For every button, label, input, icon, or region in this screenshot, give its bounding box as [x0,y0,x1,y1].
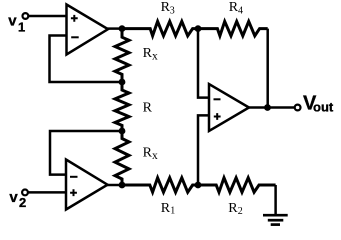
svg-text:2: 2 [238,206,243,217]
op-amp U3 [209,84,249,131]
node D junction [119,182,126,189]
resistor Rx (top) [115,29,129,82]
U3 + input pin [214,113,221,120]
svg-text:x: x [152,51,158,63]
wire v2 to U2 + input [28,191,66,194]
wire U1 output to node A [107,27,122,30]
U3 body [209,84,249,131]
terminal v2 [22,190,28,196]
svg-text:out: out [313,100,334,115]
wire U3 output to node G [248,106,268,109]
node E junction (R3/R4, to U3 minus) [195,25,202,32]
wire U2 feedback (minus input to node C) [50,131,122,175]
terminal Vout [295,105,301,111]
node G junction (output node) [264,104,271,111]
op-amp U2 [66,160,108,210]
wire R4 to output node G (feedback) [266,29,269,108]
terminal v1 [23,13,29,19]
resistor R (middle) [115,82,129,131]
wire node F to U3 plus input [198,115,209,185]
ground [263,215,288,224]
wire node G to Vout terminal [268,106,295,109]
resistor R1 [122,178,198,192]
resistor R4 [198,21,268,35]
svg-text:4: 4 [238,6,243,17]
U2 body [66,160,108,210]
wire node E to U3 minus input [198,29,209,98]
wire v1 to U1 + input [28,15,66,18]
svg-text:x: x [152,150,158,162]
U1 body [67,5,109,55]
svg-text:v: v [8,13,17,30]
node B junction [119,79,126,86]
U1 + input pin [71,15,78,22]
resistor R3 [122,21,198,35]
svg-text:R: R [143,100,153,115]
U2 - input pin [70,176,78,178]
wire U2 output to node D [107,184,123,187]
svg-text:1: 1 [170,206,175,217]
op-amp U1 [67,5,109,55]
resistor R2 [198,178,276,192]
svg-text:v: v [9,189,18,206]
U2 + input pin [70,189,77,196]
wire U1 feedback (minus input to node B) [50,36,123,83]
node F junction (R1/R2, to U3 plus) [195,182,202,189]
U1 - input pin [71,36,79,38]
svg-text:3: 3 [170,5,175,16]
node C junction [119,128,126,135]
svg-text:2: 2 [19,195,26,210]
svg-text:1: 1 [18,19,25,34]
wire R2 to ground [274,185,277,215]
node A junction [119,25,126,32]
resistor Rx (bottom) [115,131,129,185]
U3 - input pin [214,98,221,100]
